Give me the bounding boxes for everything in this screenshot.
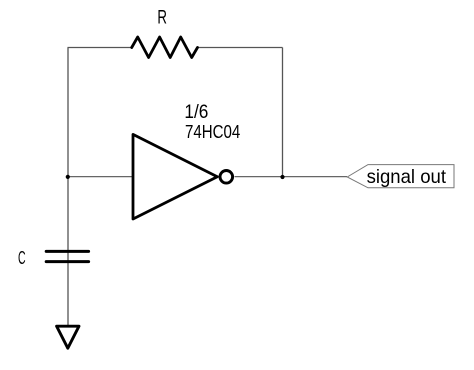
wire inverter output [235,176,348,178]
node input junction [66,175,70,179]
wire left vertical [67,48,69,327]
wire inverter input [68,176,132,178]
wire top-right horizontal [198,47,283,49]
capacitor C [46,251,88,261]
node signal out flag [347,165,454,188]
inverter bubble [220,171,233,184]
wire top-left horizontal [68,47,133,49]
wire right vertical [282,48,284,178]
svg-text:R: R [157,6,167,28]
ground [57,326,79,348]
svg-text:C: C [18,247,26,268]
op-amp U1 inverter triangle [133,134,217,219]
node output junction [280,175,284,179]
svg-text:1/6: 1/6 [184,101,208,123]
resistor R [132,37,198,58]
svg-text:signal out: signal out [367,166,447,188]
svg-text:74HC04: 74HC04 [185,121,240,142]
